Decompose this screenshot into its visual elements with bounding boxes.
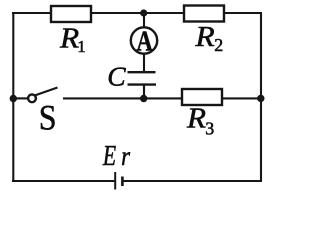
svg-text:3: 3 [205,118,214,138]
svg-text:R: R [186,104,206,134]
svg-text:R: R [194,23,214,53]
svg-text:R: R [59,24,79,54]
svg-text:r: r [121,142,130,171]
svg-text:S: S [39,99,57,138]
svg-text:E: E [102,141,116,171]
svg-text:A: A [137,26,154,57]
svg-text:2: 2 [214,35,223,55]
svg-text:1: 1 [77,37,86,56]
svg-text:C: C [107,60,126,91]
